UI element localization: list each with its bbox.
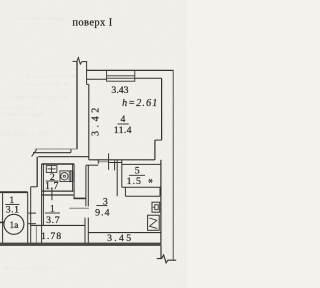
washing machine icon xyxy=(60,171,73,182)
asterisk mark xyxy=(148,179,153,183)
window W1 xyxy=(107,70,135,81)
paper background xyxy=(0,0,187,288)
door D3 jamb lower xyxy=(28,223,36,225)
wall right interior face xyxy=(161,78,163,140)
room 2 right wall outer xyxy=(72,164,74,191)
left flat left wall xyxy=(2,193,4,243)
svg-text:5: 5 xyxy=(135,165,140,176)
room 5 top wall xyxy=(122,163,161,165)
entrance tick xyxy=(0,221,5,223)
wall left interior face upper xyxy=(86,62,88,85)
room 2 right wall inner xyxy=(73,164,75,199)
svg-text:1.7: 1.7 xyxy=(45,181,59,192)
door D2 leaf xyxy=(69,207,89,209)
room1 right wall lower outer xyxy=(84,218,86,243)
svg-text:технічна інвент: технічна інвент xyxy=(1,111,44,118)
room 5 left wall inner xyxy=(121,160,123,188)
room 5 left wall outer xyxy=(116,160,118,196)
door D1 jamb left xyxy=(97,159,99,163)
room 2 left wall outer xyxy=(41,164,43,243)
room 2 bottom wall xyxy=(42,190,74,192)
dimension cap line xyxy=(35,225,37,242)
svg-text:11.4: 11.4 xyxy=(114,125,132,136)
vestibule wall xyxy=(36,157,38,187)
bottom right wall inner vertical xyxy=(160,246,162,259)
svg-text:4: 4 xyxy=(120,114,125,125)
break slash left xyxy=(32,150,37,157)
room 1 floor line xyxy=(31,224,85,226)
svg-text:3.7: 3.7 xyxy=(46,215,60,226)
svg-text:3.1: 3.1 xyxy=(6,204,20,215)
svg-text:поверховий план буд: поверховий план буд xyxy=(10,94,68,101)
pilaster jog xyxy=(155,139,162,141)
vestibule jog xyxy=(31,186,38,188)
wall right interior face lower xyxy=(160,160,162,243)
svg-text:1а: 1а xyxy=(9,221,19,231)
break symbol bottom-right xyxy=(157,255,176,263)
wall left exterior face xyxy=(76,61,78,149)
shaft stub wall xyxy=(74,197,86,199)
left flat right wall inner xyxy=(30,187,32,243)
apartment circle 1a xyxy=(4,214,24,234)
svg-text:виконав перевірив: виконав перевірив xyxy=(4,265,55,272)
room 2 left wall inner xyxy=(42,164,44,225)
pilaster face xyxy=(154,140,156,160)
wall room4 bottom top face xyxy=(89,159,155,161)
svg-text:3.42: 3.42 xyxy=(91,104,102,136)
door D4 jamb tick xyxy=(114,161,116,171)
svg-text:агальна площа кв: агальна площа кв xyxy=(26,73,74,80)
svg-text:3.43: 3.43 xyxy=(111,85,128,96)
faint bleed-through marks xyxy=(1,15,74,272)
sill jog xyxy=(87,83,89,85)
wall top exterior face xyxy=(87,69,174,71)
svg-text:итлова площа м: итлова площа м xyxy=(24,81,68,88)
wall room4 bottom lower face left xyxy=(86,164,98,166)
svg-text:поверх І: поверх І xyxy=(72,17,112,28)
vent niche icon xyxy=(148,215,160,230)
svg-text:9.4: 9.4 xyxy=(95,208,111,219)
svg-text:держ реєстр: держ реєстр xyxy=(1,104,35,111)
svg-text:нвентарна справа: нвентарна справа xyxy=(16,15,64,22)
wall right exterior face xyxy=(172,70,174,259)
electric panel icon xyxy=(152,202,160,212)
toilet icon xyxy=(46,166,57,173)
break symbol top-left xyxy=(73,58,88,65)
room 3 floor line xyxy=(88,232,161,234)
wall top interior face right of window xyxy=(135,77,162,79)
svg-text:3.45: 3.45 xyxy=(107,233,133,244)
left flat top wall xyxy=(0,191,28,193)
corridor wall connector xyxy=(70,149,72,153)
corridor wall lower line xyxy=(38,156,89,158)
corridor wall upper line xyxy=(33,152,71,154)
left flat right wall outer xyxy=(27,192,29,243)
room 5 bottom wall xyxy=(122,186,161,188)
shaft wall left xyxy=(85,165,87,206)
wall segment right of door D1 xyxy=(109,162,122,164)
door D1 jamb right xyxy=(108,153,110,169)
wall left interior face xyxy=(88,84,90,159)
room1 right wall lower inner xyxy=(87,218,89,243)
door D1 threshold xyxy=(98,161,108,163)
bottom wall band xyxy=(0,243,162,246)
room 2 top wall xyxy=(42,163,75,165)
paper grain xyxy=(0,0,187,288)
door D3 jamb upper xyxy=(28,212,36,214)
svg-text:h=2.61: h=2.61 xyxy=(122,98,158,109)
wall top interior face left of window xyxy=(87,78,107,80)
neighbour wall grey line xyxy=(35,148,78,150)
svg-text:1.5: 1.5 xyxy=(127,176,142,187)
svg-text:1.78: 1.78 xyxy=(41,231,62,242)
svg-text:масштаб 1:100: масштаб 1:100 xyxy=(1,129,48,138)
